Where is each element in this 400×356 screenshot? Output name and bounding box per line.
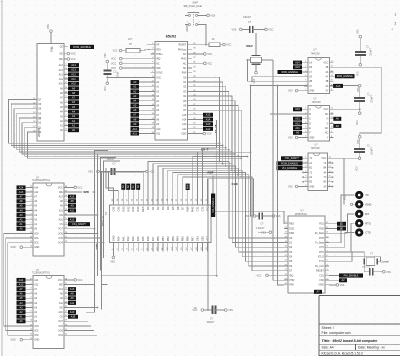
svg-text:RS1: RS1 bbox=[131, 206, 135, 212]
svg-text:D6: D6 bbox=[176, 206, 180, 210]
VIA top pin 30 D3 bbox=[161, 196, 165, 210]
VIA top pin 38 RS3 bbox=[121, 196, 125, 212]
VIA bottom pin 13 PB3 bbox=[171, 236, 175, 252]
svg-text:PA1: PA1 bbox=[121, 236, 125, 241]
svg-text:CS: CS bbox=[60, 224, 64, 226]
74HC30 right pin NC bbox=[325, 127, 334, 131]
ACIA left pin D4 bbox=[284, 255, 293, 259]
CPU right pin 28 D5 bbox=[183, 99, 196, 103]
wire RX to connector bbox=[325, 214, 354, 233]
svg-text:WE: WE bbox=[59, 59, 63, 61]
wire RAM1 I/O5 bbox=[68, 237, 101, 239]
net label A11 at CPU pin 20 bbox=[131, 131, 151, 135]
CPU left pin 16 A7 bbox=[151, 113, 160, 117]
svg-text:VCC: VCC bbox=[58, 187, 63, 189]
svg-text:VSS: VSS bbox=[210, 14, 215, 17]
VIA bottom pin 11 PB1 bbox=[161, 236, 165, 252]
svg-text:CTS: CTS bbox=[365, 231, 371, 235]
svg-text:I/O1: I/O1 bbox=[34, 330, 39, 332]
net label A4 at RAM1 left bbox=[17, 208, 30, 212]
wire data bus D7 branch to VIA bbox=[183, 176, 242, 202]
ACIA left pin D6 bbox=[284, 264, 293, 268]
ROM data pin D3 bbox=[33, 117, 42, 121]
CPU left pin 13 A4 bbox=[151, 99, 160, 103]
svg-text:VSS: VSS bbox=[207, 133, 212, 136]
net label A8 at CPU pin 17 bbox=[131, 117, 151, 121]
svg-text:PB0: PB0 bbox=[156, 236, 160, 241]
ROM GND pin to VSS power symbol bbox=[47, 24, 54, 52]
RAM1 right pin I/O4 bbox=[58, 241, 68, 245]
VIA top pin 21 IRQ bbox=[205, 196, 209, 211]
ACIA right pin XTLI bbox=[319, 260, 329, 264]
svg-text:VCC: VCC bbox=[245, 216, 250, 218]
wire RAM2 VCC stub bbox=[68, 279, 83, 282]
net label A11 at 74HC30 bbox=[293, 126, 304, 130]
wire data bus D4 CPU to ACIA bbox=[188, 96, 289, 257]
CPU left pin 5 NC bbox=[151, 62, 160, 66]
svg-text:RES: RES bbox=[141, 206, 145, 212]
RAM1 right pin A11 bbox=[59, 209, 68, 213]
svg-text:A8: A8 bbox=[72, 91, 76, 95]
CPU right pin 21 VDD bbox=[181, 132, 196, 136]
ACIA left pin D3 bbox=[284, 250, 293, 254]
74HC02 left pin A2 bbox=[304, 176, 313, 180]
svg-text:NMI: NMI bbox=[156, 68, 161, 70]
svg-text:RS3: RS3 bbox=[121, 206, 125, 212]
net label A4 at CPU pin 13 bbox=[131, 99, 151, 103]
ACIA U7 W65C51N body bbox=[288, 210, 325, 294]
svg-text:VCC: VCC bbox=[113, 50, 118, 53]
74HC30 right pin H bbox=[327, 117, 334, 121]
RAM1 right pin CS bbox=[60, 223, 68, 227]
RAM1 left pin A2 bbox=[29, 218, 38, 222]
net label A3 near title block bbox=[314, 290, 322, 294]
74HC00 right pin 3A bbox=[325, 84, 333, 88]
VIA top pin 27 D6 bbox=[176, 196, 180, 210]
74HC00 left pin 1Y bbox=[304, 70, 313, 74]
net label VIA_ENABLE at ACIA CS bbox=[329, 273, 363, 277]
ROM data pin D0 bbox=[33, 130, 42, 134]
net label A7 at CPU pin 16 bbox=[131, 113, 151, 117]
bus label CLK bbox=[232, 182, 239, 186]
net label A0 at ACIA RS0 bbox=[329, 227, 346, 231]
svg-text:IRQ: IRQ bbox=[289, 275, 293, 277]
svg-text:VP: VP bbox=[156, 45, 160, 47]
connector J1 pin CTS bbox=[355, 228, 371, 236]
CPU right pin 35 ML bbox=[183, 66, 196, 70]
svg-text:Tx_Data: Tx_Data bbox=[315, 241, 325, 244]
svg-text:A4: A4 bbox=[72, 110, 76, 114]
ROM pin CE with net label ROM_ENABLE bbox=[60, 45, 94, 49]
svg-text:Title:: Title: bbox=[322, 339, 332, 343]
svg-text:CS: CS bbox=[60, 317, 64, 319]
CPU right pin 31 D2 bbox=[183, 85, 196, 89]
RAM2 left pin A4 bbox=[29, 301, 38, 305]
svg-text:R/W: R/W bbox=[84, 190, 90, 194]
svg-text:CS2: CS2 bbox=[201, 206, 205, 212]
RAM2 right pin A11 bbox=[59, 301, 68, 305]
svg-text:Rx_CLK: Rx_CLK bbox=[315, 266, 324, 268]
svg-text:DTR: DTR bbox=[319, 238, 324, 240]
wire RTS to connector bbox=[325, 223, 354, 252]
svg-text:A13: A13 bbox=[295, 118, 300, 121]
net label A6 at RAM2 left bbox=[17, 292, 30, 296]
svg-text:Size: A4: Size: A4 bbox=[322, 346, 334, 350]
RAM2 left pin A3 bbox=[29, 306, 38, 310]
svg-text:A14: A14 bbox=[182, 118, 187, 121]
VIA top pin 22 CS2 bbox=[201, 196, 205, 212]
ROM pin 25 A8 with net label A8 bbox=[60, 91, 79, 95]
svg-text:Date: Meeting - xx: Date: Meeting - xx bbox=[358, 346, 385, 350]
CPU right pin 24 A14 bbox=[182, 118, 196, 122]
wire bundle left of VIA v1 bbox=[86, 151, 108, 313]
svg-text:A11: A11 bbox=[295, 127, 300, 130]
VIA bottom pin 16 PB6 bbox=[186, 236, 190, 252]
ACIA left pin D7 bbox=[284, 269, 293, 273]
svg-text:D1: D1 bbox=[151, 206, 155, 210]
CPU left pin 10 A1 bbox=[151, 85, 160, 89]
CPU left pin 7 SYNC bbox=[151, 71, 163, 75]
svg-text:D0: D0 bbox=[146, 206, 150, 210]
RAM2 right pin CS bbox=[60, 315, 68, 319]
svg-text:VCC: VCC bbox=[323, 63, 328, 65]
capacitor C7 100nF bottom middle bbox=[193, 306, 234, 324]
net label A8 at RAM2 right bbox=[68, 292, 76, 296]
VIA top pin 34 RES bbox=[141, 196, 145, 212]
net label A9 at RAM2 right bbox=[68, 296, 76, 300]
capacitor C4 100nF right column middle bbox=[354, 136, 373, 172]
svg-text:DSR: DSR bbox=[289, 233, 294, 235]
ACIA left pin D2 bbox=[284, 246, 293, 250]
ACIA right pin RESET bbox=[316, 269, 329, 273]
net label A10 at 74HC30 bbox=[293, 107, 304, 111]
CPU left pin 9 A0 bbox=[151, 80, 160, 84]
svg-text:R/W: R/W bbox=[95, 244, 99, 250]
74HC30 left pin GND bbox=[304, 136, 315, 140]
svg-text:A2: A2 bbox=[72, 119, 76, 123]
svg-text:GND: GND bbox=[34, 340, 39, 342]
svg-text:I/O5: I/O5 bbox=[58, 330, 63, 332]
wire RAM1 I/O0 to RAM2 bbox=[4, 233, 29, 326]
ROM pin 10 A0 with net label A0 bbox=[60, 128, 79, 132]
wire data bus D1 branch to VIA bbox=[153, 163, 224, 203]
ACIA right pin CTS bbox=[319, 246, 329, 250]
svg-text:4B: 4B bbox=[325, 67, 328, 69]
net label A3 at RAM2 left bbox=[17, 306, 30, 310]
RAM1 left pin A6 bbox=[29, 200, 38, 204]
svg-text:PHI2: PHI2 bbox=[181, 59, 187, 61]
svg-text:XTLI: XTLI bbox=[319, 261, 324, 263]
74HC30 right pin VCC bbox=[323, 108, 333, 112]
RAM2 GND power circle bbox=[11, 338, 30, 341]
74HC00 left pin 1A bbox=[304, 61, 313, 65]
RAM2 left pin I/O0 bbox=[29, 324, 39, 328]
svg-text:A3: A3 bbox=[133, 94, 137, 98]
svg-text:VCC: VCC bbox=[268, 28, 273, 31]
RAM1 left pin I/O1 bbox=[29, 236, 39, 240]
svg-text:A13: A13 bbox=[70, 196, 75, 199]
svg-text:VCC: VCC bbox=[257, 275, 262, 277]
svg-text:VDD: VDD bbox=[181, 134, 186, 136]
74HC02 left pin GND bbox=[304, 185, 315, 189]
CPU left pin 14 A5 bbox=[151, 104, 160, 108]
svg-text:CS1: CS1 bbox=[319, 275, 324, 277]
svg-text:PA6: PA6 bbox=[146, 236, 150, 241]
net label A7 at RAM1 left bbox=[17, 195, 30, 199]
net label A15 at CPU right bbox=[192, 113, 213, 117]
CPU left pin 15 A6 bbox=[151, 109, 160, 113]
svg-text:OE: OE bbox=[59, 54, 63, 56]
RAM1 left pin A5 bbox=[29, 204, 38, 208]
net label A12 at CPU right bbox=[192, 127, 213, 131]
bus label R/W at RAM1 WE bbox=[68, 190, 95, 194]
VCC pull-up circle on CPU pin bbox=[111, 62, 155, 65]
svg-text:A12: A12 bbox=[34, 191, 39, 194]
RAM1 left pin A3 bbox=[29, 213, 38, 217]
svg-text:A10: A10 bbox=[295, 108, 300, 111]
svg-text:ROM_ENABLE: ROM_ENABLE bbox=[281, 162, 298, 165]
svg-text:NC: NC bbox=[325, 128, 329, 130]
74HC02 left pin B1 bbox=[304, 166, 313, 170]
svg-text:GND: GND bbox=[319, 285, 324, 287]
wire RAM1 I/O6 bbox=[68, 233, 98, 235]
VIA top pin 28 D5 bbox=[171, 196, 175, 210]
net label A9 at RAM1 right bbox=[68, 204, 76, 208]
svg-text:100nF?: 100nF? bbox=[371, 94, 373, 103]
wire VCC rail to bottom cap bbox=[207, 179, 209, 311]
no-connect arrow at 74HC02 left pin bbox=[302, 176, 308, 178]
svg-text:G: G bbox=[326, 123, 328, 125]
net label RS0 rotated above VIA bbox=[136, 184, 140, 196]
CPU left pin 20 A11 bbox=[151, 132, 161, 136]
svg-text:PHI_ENABLE: PHI_ENABLE bbox=[344, 274, 359, 277]
capacitor C3 100nF right column top bbox=[354, 84, 373, 125]
svg-text:A10: A10 bbox=[156, 128, 161, 131]
svg-text:VCC: VCC bbox=[58, 280, 63, 282]
svg-text:I/O4: I/O4 bbox=[58, 243, 63, 245]
CPU left pin 18 A9 bbox=[151, 123, 160, 127]
74HC30 right pin Y bbox=[327, 136, 334, 140]
connector J1 pin RTS bbox=[355, 219, 371, 227]
VIA top pin 25 R/W bbox=[186, 196, 190, 212]
ROM pin OE to VSS bbox=[59, 52, 75, 55]
74HC30 right pin NC bbox=[325, 131, 334, 135]
svg-text:I/O2: I/O2 bbox=[34, 243, 39, 245]
wire RESET to pull-up bbox=[188, 44, 210, 46]
RAM1 GND power circle bbox=[11, 246, 30, 249]
74HC00 right pin 4B bbox=[325, 66, 333, 70]
svg-text:PB5: PB5 bbox=[181, 236, 185, 241]
svg-text:100nF?: 100nF? bbox=[107, 158, 116, 161]
CPU right pin 22 A12 bbox=[182, 127, 196, 131]
net label A13 at RAM2 left bbox=[17, 283, 30, 287]
net label A9 at CPU pin 18 bbox=[131, 122, 151, 126]
svg-text:VCC: VCC bbox=[226, 44, 231, 47]
74HC00 right pin VCC bbox=[323, 61, 333, 65]
svg-text:A12: A12 bbox=[59, 73, 64, 76]
net label A8 at RAM1 right bbox=[68, 199, 76, 203]
svg-text:A12: A12 bbox=[206, 127, 211, 131]
svg-text:PA3: PA3 bbox=[131, 236, 135, 241]
svg-text:A11: A11 bbox=[59, 78, 64, 81]
connector J1 pin TX bbox=[355, 191, 369, 199]
svg-text:VCC: VCC bbox=[105, 86, 107, 91]
RAM1 right pin A9 bbox=[60, 204, 68, 208]
ACIA right pin GND bbox=[319, 285, 330, 287]
svg-text:A12: A12 bbox=[182, 128, 187, 131]
resistor R1 1K on RDY bbox=[113, 38, 151, 53]
svg-text:PB7: PB7 bbox=[191, 236, 195, 241]
wire data bus D1 from ROM to CPU bbox=[25, 127, 239, 157]
svg-text:A8: A8 bbox=[133, 117, 137, 121]
svg-text:WE: WE bbox=[59, 192, 63, 194]
svg-text:CS0: CS0 bbox=[319, 280, 324, 282]
wire ACIA R/W bbox=[277, 85, 284, 285]
net label R/W rotated above VIA bbox=[186, 184, 190, 196]
net label A1 at RAM2 left bbox=[17, 315, 30, 319]
ROM data pin D7 bbox=[33, 98, 42, 102]
svg-text:VSS: VSS bbox=[71, 53, 76, 56]
VIA top pin 33 D0 bbox=[146, 196, 150, 210]
74HC30 left pin F bbox=[304, 131, 311, 135]
VIA top pin 37 RS2 bbox=[126, 196, 130, 212]
wire data bus D2 CPU to ACIA bbox=[188, 87, 289, 248]
ROM data pin D4 bbox=[33, 112, 42, 116]
svg-text:PA0: PA0 bbox=[116, 236, 120, 241]
svg-text:ROM_ENABLE: ROM_ENABLE bbox=[282, 71, 299, 74]
wire data bus D2 branch to VIA bbox=[158, 165, 227, 202]
74HC02 left pin Y2 bbox=[304, 171, 313, 175]
svg-text:CA1: CA1 bbox=[111, 206, 115, 212]
svg-text:RDY: RDY bbox=[156, 49, 161, 51]
svg-text:NC: NC bbox=[156, 63, 160, 65]
RAM2 right pin A8 bbox=[60, 292, 68, 296]
ACIA right pin RS1 bbox=[319, 222, 329, 226]
net label A6 at RAM1 left bbox=[17, 199, 30, 203]
svg-text:A13: A13 bbox=[336, 85, 341, 88]
svg-text:I/O4: I/O4 bbox=[58, 335, 63, 337]
svg-text:VCC: VCC bbox=[345, 195, 347, 200]
wire data bus D3 from ROM to CPU bbox=[19, 118, 233, 153]
RAM1 left pin A0 bbox=[29, 227, 38, 231]
net label RS3 rotated above VIA bbox=[121, 184, 125, 196]
svg-text:VCC: VCC bbox=[111, 67, 116, 70]
svg-text:A11: A11 bbox=[59, 209, 64, 212]
logic IC U5 74HC30 body bbox=[308, 97, 330, 141]
74HC00 left pin 2B bbox=[304, 80, 313, 84]
ACIA right pin CS0 bbox=[319, 278, 329, 282]
net label A2 at RAM1 left bbox=[17, 218, 30, 222]
svg-text:VCC: VCC bbox=[357, 166, 359, 171]
VSS circle at 74HC30 GND bbox=[288, 136, 304, 139]
svg-text:A13: A13 bbox=[59, 196, 64, 199]
svg-text:RAM_ENABLE: RAM_ENABLE bbox=[337, 75, 353, 78]
svg-text:A7: A7 bbox=[72, 96, 76, 100]
svg-text:PB1: PB1 bbox=[161, 236, 165, 241]
svg-text:RTS: RTS bbox=[319, 252, 324, 254]
svg-text:A15: A15 bbox=[182, 114, 187, 117]
CPU right pin 34 R/W bbox=[182, 71, 197, 75]
CPU left pin 8 VCC bbox=[151, 76, 162, 80]
VIA top pin 35 RS0 bbox=[136, 196, 140, 212]
net label A11 at RAM1 right bbox=[68, 208, 76, 212]
CPU right pin 37 PHI2 bbox=[181, 57, 196, 61]
wire data bus D7 CPU to ACIA bbox=[188, 110, 289, 271]
svg-text:VSS: VSS bbox=[386, 272, 391, 274]
no-connect arrow at 74HC02 left pin bbox=[302, 171, 308, 173]
svg-text:VSS: VSS bbox=[47, 24, 50, 29]
74HC00 left pin 2Y bbox=[304, 84, 313, 88]
wire data bus D6 branch to VIA bbox=[178, 174, 239, 203]
svg-text:CB2: CB2 bbox=[201, 236, 205, 242]
svg-text:PHI2: PHI2 bbox=[191, 206, 195, 212]
SRAM RAM2 71256SA25TPG body bbox=[32, 270, 64, 349]
VIA bottom pin 5 PA3 bbox=[131, 236, 135, 252]
net label CS1_RAM at RAM1 bbox=[68, 222, 90, 226]
svg-text:1K: 1K bbox=[212, 38, 215, 41]
svg-text:A11: A11 bbox=[133, 131, 138, 135]
svg-text:GND: GND bbox=[365, 203, 371, 207]
push button SW1 SW_Push_Dual bbox=[184, 0, 203, 26]
net label A14 at RAM1 left bbox=[17, 185, 30, 189]
VIA top pin 26 D7 bbox=[181, 196, 185, 210]
svg-text:VSS: VSS bbox=[288, 187, 293, 189]
svg-text:A10: A10 bbox=[59, 219, 64, 222]
svg-text:VSS: VSS bbox=[276, 216, 281, 218]
svg-text:GND: GND bbox=[11, 340, 16, 342]
ACIA right pin XTLO bbox=[318, 255, 329, 259]
svg-text:VSS: VSS bbox=[105, 53, 107, 58]
ACIA left pin RES bbox=[284, 222, 295, 226]
wire RAM2 I/O4 bbox=[68, 334, 97, 336]
svg-text:RESET: RESET bbox=[179, 45, 187, 47]
no-connect arrow at 74HC02 left pin bbox=[302, 181, 308, 183]
ACIA left pin PHI2 bbox=[284, 278, 295, 282]
CPU right pin 26 D7 bbox=[183, 109, 196, 113]
wire 74HC30 pin B left bbox=[270, 113, 304, 115]
74HC02 right pin VCC bbox=[321, 157, 331, 161]
net label A1 at RAM1 left bbox=[17, 222, 30, 226]
svg-text:71256SA25TPG1: 71256SA25TPG1 bbox=[32, 179, 51, 182]
ROM pin 6 A4 with net label A4 bbox=[60, 110, 79, 114]
title block sheet text bbox=[322, 326, 351, 335]
svg-text:2Y: 2Y bbox=[309, 86, 312, 88]
wire RAM1 VCC stub bbox=[68, 186, 83, 189]
VIA top pin 31 D2 bbox=[156, 196, 160, 210]
svg-text:A12: A12 bbox=[295, 122, 300, 125]
svg-text:GND: GND bbox=[34, 247, 39, 249]
svg-text:74HC00: 74HC00 bbox=[311, 52, 321, 55]
net label RS2 rotated above VIA bbox=[126, 184, 130, 196]
wire RAM1 I/O4 bbox=[68, 242, 104, 244]
net label A2 at CPU pin 11 bbox=[131, 89, 151, 93]
74HC00 left pin 1B bbox=[304, 66, 313, 70]
ACIA right pin RS0 bbox=[319, 227, 329, 231]
wire RST net to ACIA RES bbox=[213, 176, 288, 224]
svg-text:74HC30: 74HC30 bbox=[312, 101, 322, 104]
svg-text:VCC: VCC bbox=[193, 310, 198, 312]
wire data bus D7 from ROM to CPU bbox=[9, 99, 221, 144]
svg-text:1Y: 1Y bbox=[309, 72, 312, 74]
svg-text:RS0: RS0 bbox=[319, 228, 324, 230]
svg-text:D3: D3 bbox=[161, 206, 165, 210]
wire VIA PHI2 CS pins up right bbox=[193, 120, 254, 216]
svg-text:WE: WE bbox=[59, 284, 63, 286]
VIA top pin 29 D4 bbox=[166, 196, 170, 210]
RAM1 left pin A12 bbox=[29, 190, 39, 194]
svg-text:D4: D4 bbox=[166, 206, 170, 210]
ACIA left pin DCD bbox=[284, 227, 295, 231]
